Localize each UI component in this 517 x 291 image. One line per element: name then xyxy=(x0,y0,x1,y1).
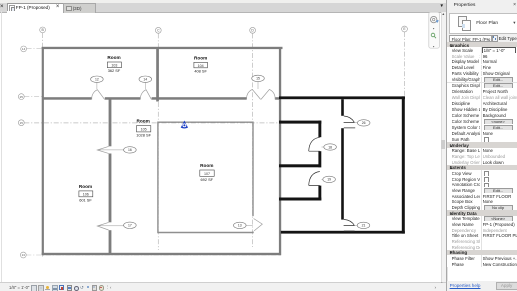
svg-text:408 SF: 408 SF xyxy=(194,69,207,74)
new construction wall right xyxy=(402,96,405,233)
wall top exterior (existing gray) xyxy=(42,47,283,49)
grid line 14 xyxy=(21,46,282,52)
svg-text:107: 107 xyxy=(204,172,210,176)
property row Scale Value 1: xyxy=(447,53,517,60)
tab bar background xyxy=(0,0,446,13)
property row Range: Top Level xyxy=(447,153,517,160)
empty area below rows xyxy=(447,267,517,281)
property row Crop Region Vis xyxy=(447,176,517,183)
section header Phasing xyxy=(447,250,517,257)
door 18 arc xyxy=(309,137,320,151)
left edge line xyxy=(1,11,2,291)
room 107 label xyxy=(200,163,214,182)
door tag 13 xyxy=(234,222,253,228)
svg-text:12: 12 xyxy=(95,78,99,82)
door 19 arc xyxy=(309,172,320,186)
door tag 17 xyxy=(98,222,136,228)
svg-text:362 SF: 362 SF xyxy=(108,68,121,73)
door tag 15 xyxy=(252,75,265,89)
type selector xyxy=(449,13,517,34)
door tag 21 xyxy=(355,222,370,228)
new construction wall top (black) xyxy=(279,96,405,99)
property row Crop View xyxy=(447,170,517,177)
door tag 18 xyxy=(322,144,337,150)
property row Wall Join Display xyxy=(447,94,517,101)
white connector under active tab xyxy=(7,11,62,13)
section header Extents xyxy=(447,165,517,172)
property row Phase xyxy=(447,261,517,268)
property row Dependency xyxy=(447,227,517,234)
property row Show Hidden Li xyxy=(447,106,517,113)
svg-text:25: 25 xyxy=(20,95,24,99)
section header Identity Data xyxy=(447,210,517,217)
door tag 26 xyxy=(355,120,371,126)
svg-text:Room: Room xyxy=(137,119,150,124)
wall interior vertical C (rooms 103/104) xyxy=(156,49,159,102)
grid line D xyxy=(250,27,256,247)
property row Associated Level xyxy=(447,193,517,200)
svg-text:13: 13 xyxy=(22,253,26,257)
svg-text:601 SF: 601 SF xyxy=(79,198,92,203)
svg-text:Room: Room xyxy=(79,184,92,189)
room 103 label xyxy=(107,55,121,73)
door 15 double swing xyxy=(247,89,275,99)
svg-text:15: 15 xyxy=(20,121,24,125)
property row Visibility/Graphi xyxy=(447,77,517,84)
room 106 label xyxy=(79,184,93,203)
property row Referencing Sh xyxy=(447,238,517,245)
properties panel xyxy=(446,0,517,291)
door 13 swing xyxy=(254,219,263,231)
door tag 14 xyxy=(139,76,152,89)
property row Display Model xyxy=(447,59,517,66)
new interior vertical wall segments (doors 26, 21) xyxy=(341,99,344,116)
property row Color Scheme xyxy=(447,118,517,125)
property row System Color S xyxy=(447,124,517,131)
property row Sun Path xyxy=(447,136,517,143)
property row View Template xyxy=(447,216,517,223)
grid line 15 xyxy=(18,120,280,126)
property row View Scale xyxy=(447,47,517,54)
svg-text:104: 104 xyxy=(198,64,204,68)
type combo + edit type xyxy=(449,35,492,43)
door 21 leaf and arc xyxy=(344,219,355,231)
view control icons xyxy=(31,285,37,291)
svg-text:106: 106 xyxy=(83,193,89,197)
wall interior horizontal (grid 25) segments with door gaps xyxy=(43,97,92,100)
navigation bar xyxy=(429,12,440,48)
property row Underlay Orient xyxy=(447,159,517,166)
svg-text:103: 103 xyxy=(111,64,117,68)
svg-text:Room: Room xyxy=(107,55,120,60)
door tag 16 xyxy=(98,147,136,153)
grid line C xyxy=(155,27,161,250)
small room bottom stub wall xyxy=(279,198,321,201)
section header Underlay xyxy=(447,142,517,149)
bottom view control bar xyxy=(0,282,446,291)
property row Graphics Displa xyxy=(447,83,517,90)
canvas vertical scrollbar xyxy=(441,12,447,283)
property row Detail Level xyxy=(447,65,517,72)
door 16 swing xyxy=(97,146,108,153)
door 14 swing xyxy=(140,90,151,100)
small room middle stub wall xyxy=(279,164,319,167)
small room right vertical wall segments (doors 18,19) xyxy=(318,121,321,138)
svg-text:16: 16 xyxy=(128,148,132,152)
grid line B xyxy=(40,27,46,258)
blue selection marker xyxy=(181,121,188,129)
small room top stub wall xyxy=(279,121,321,124)
grid line 25 xyxy=(18,94,43,100)
property row Scope Box xyxy=(447,199,517,206)
svg-text:692 SF: 692 SF xyxy=(201,177,214,182)
property row Annotation Crop xyxy=(447,182,517,189)
inactive view tab (3D) xyxy=(63,3,96,13)
view scale text xyxy=(9,285,29,290)
property row Color Scheme L xyxy=(447,112,517,119)
svg-text:105: 105 xyxy=(141,128,147,132)
svg-text:19: 19 xyxy=(327,178,331,182)
left panel edge close X xyxy=(0,3,6,11)
properties title bar xyxy=(447,0,517,11)
wall interior vertical (rooms 106/105) segments with door gaps xyxy=(109,100,112,147)
small dark arrow in tab bar right xyxy=(440,3,446,10)
svg-text:1028 SF: 1028 SF xyxy=(136,132,151,137)
property row Referencing Det xyxy=(447,244,517,251)
property row View Range xyxy=(447,187,517,194)
property row Orientation xyxy=(447,88,517,95)
room 105 label xyxy=(136,119,151,138)
svg-text:18: 18 xyxy=(328,145,332,149)
section header Graphics xyxy=(447,42,517,48)
door 26 leaf and arc xyxy=(344,116,356,128)
door tag 12 xyxy=(91,76,104,89)
property row Range: Base Le xyxy=(447,148,517,155)
property row Depth Clipping xyxy=(447,204,517,211)
svg-text:21: 21 xyxy=(362,224,366,228)
door tag 19 xyxy=(322,176,336,182)
svg-text:Room: Room xyxy=(194,55,207,60)
property row Default Analysis xyxy=(447,130,517,137)
svg-text:14: 14 xyxy=(22,47,26,51)
grid line E xyxy=(402,26,408,97)
wall left exterior xyxy=(42,47,44,255)
room 104 label xyxy=(194,55,208,73)
svg-text:26: 26 xyxy=(362,121,366,125)
wall bottom exterior xyxy=(42,253,281,255)
room 107 boundary rectangle xyxy=(158,122,253,232)
wall right exterior (existing gray) xyxy=(279,47,281,255)
svg-text:Room: Room xyxy=(200,163,213,168)
svg-text:14: 14 xyxy=(143,78,147,82)
door 17 swing xyxy=(97,222,108,230)
property row Phase Filter xyxy=(447,255,517,262)
properties help link and apply button xyxy=(447,281,517,291)
property row Parts Visibility xyxy=(447,71,517,78)
svg-text:13: 13 xyxy=(238,224,242,228)
new construction wall bottom xyxy=(281,231,405,234)
grid line 13 xyxy=(20,252,281,258)
active view tab FP-1 (Proposed) xyxy=(7,3,65,13)
svg-text:17: 17 xyxy=(128,224,132,228)
property row Discipline xyxy=(447,100,517,107)
property row Title on Sheet xyxy=(447,233,517,240)
svg-text:15: 15 xyxy=(256,77,260,81)
property row View Name xyxy=(447,221,517,228)
door 12 swing xyxy=(92,90,105,100)
